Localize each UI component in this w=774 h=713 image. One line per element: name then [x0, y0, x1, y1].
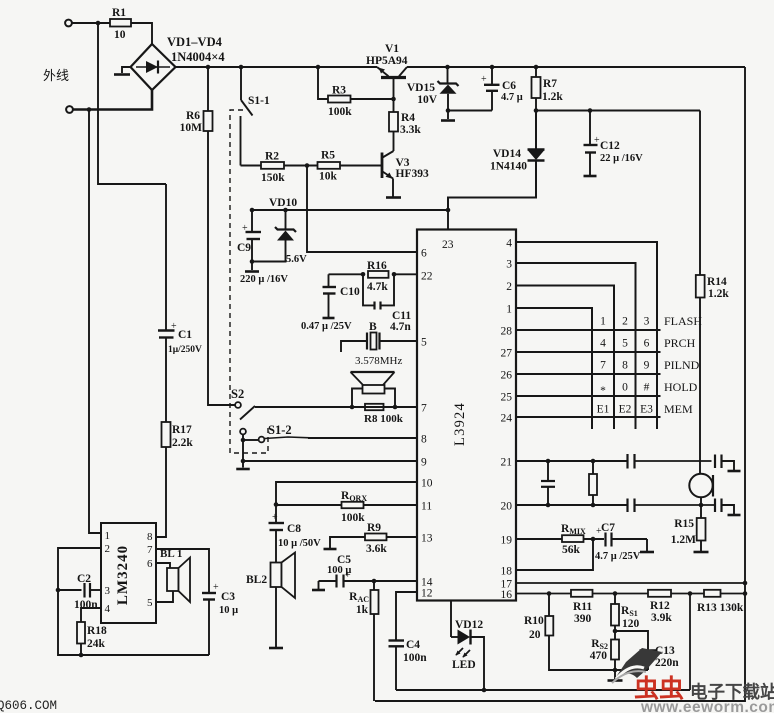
svg-text:10 μ: 10 μ: [219, 605, 238, 616]
svg-text:0.47 μ /25V: 0.47 μ /25V: [301, 321, 352, 332]
svg-text:BL2: BL2: [246, 574, 267, 586]
wire S1-2 node down to pin9: [242, 440, 244, 461]
capacitor C12 22u/16V: [589, 111, 591, 145]
node pin17 right: [743, 581, 748, 586]
LED VD12: [450, 601, 452, 638]
svg-text:10M: 10M: [180, 122, 203, 134]
ground below BL2: [275, 587, 277, 647]
svg-text:100n: 100n: [74, 599, 98, 611]
ground below C9: [251, 262, 253, 271]
svg-text:R13 130k: R13 130k: [697, 602, 744, 614]
svg-text:8: 8: [421, 434, 427, 446]
svg-text:2: 2: [506, 281, 512, 293]
svg-text:LED: LED: [452, 659, 476, 671]
svg-text:5: 5: [622, 338, 628, 350]
wire RAC bottom rail: [373, 614, 375, 701]
svg-text:R16: R16: [367, 260, 387, 272]
watermark swoosh logo: [612, 648, 662, 683]
svg-text:4: 4: [506, 238, 512, 250]
resistor R14 1.2k: [699, 111, 701, 276]
svg-text:4: 4: [600, 338, 606, 350]
resistor RAC 1k: [373, 581, 375, 590]
wire R2 to R5: [284, 165, 318, 167]
wire pin16 col to C4 rail: [689, 594, 691, 691]
node pin20 b: [591, 503, 596, 508]
svg-text:C2: C2: [77, 573, 91, 585]
svg-text:19: 19: [501, 535, 513, 547]
wire pin16: [516, 593, 571, 595]
svg-text:C10: C10: [340, 286, 360, 298]
svg-text:+: +: [596, 526, 602, 537]
svg-text:22: 22: [421, 271, 433, 283]
keypad column wire pin2: [516, 286, 614, 430]
svg-text:5: 5: [147, 597, 153, 609]
svg-text:6: 6: [147, 558, 153, 570]
svg-text:C9: C9: [237, 242, 251, 254]
svg-text:28: 28: [501, 326, 513, 338]
svg-text:470: 470: [590, 650, 608, 662]
ground below R15: [700, 541, 702, 552]
svg-text:1.2M: 1.2M: [671, 534, 696, 546]
capacitor C4 100n: [389, 639, 405, 641]
op-amp U2 LM3240 ringer IC: [101, 523, 156, 623]
capacitor C8 10u/50V: [275, 505, 277, 523]
svg-text:1.2k: 1.2k: [542, 91, 563, 103]
op-amp U1 L3924 dialer IC: [417, 230, 516, 601]
microphone BM: [689, 474, 712, 497]
node RS1 top: [613, 591, 618, 596]
wire R5 to V3 base: [340, 165, 382, 167]
svg-text:VD1–VD4: VD1–VD4: [167, 35, 223, 49]
svg-text:5: 5: [421, 337, 427, 349]
svg-text:L3924: L3924: [452, 402, 468, 446]
svg-text:C12: C12: [600, 140, 620, 152]
transistor V1 HP5A94: [381, 76, 406, 79]
terminal: phone line tip: [65, 20, 72, 27]
svg-text:22 μ /16V: 22 μ /16V: [600, 153, 643, 164]
svg-text:7: 7: [147, 544, 153, 556]
svg-text:R3: R3: [332, 85, 346, 97]
svg-text:4.7 μ /25V: 4.7 μ /25V: [595, 551, 641, 562]
capacitor on pin21 line: [626, 454, 628, 469]
svg-text:6: 6: [421, 248, 427, 260]
svg-text:R8 100k: R8 100k: [364, 413, 404, 425]
svg-text:VD15: VD15: [407, 82, 435, 94]
svg-text:E3: E3: [640, 404, 653, 416]
svg-text:100k: 100k: [341, 512, 365, 524]
capacitor to earpiece (pin21 right): [714, 455, 716, 469]
wire terminal1 to R1: [72, 22, 110, 24]
svg-text:PILND: PILND: [664, 358, 700, 372]
keypad column wire pin3: [516, 263, 636, 429]
ground at bridge left corner: [122, 67, 131, 73]
wire pin10: [276, 482, 417, 505]
node C8 top: [274, 502, 279, 507]
svg-text:VD12: VD12: [455, 619, 483, 631]
svg-text:6: 6: [644, 338, 650, 350]
wire pin2 loop: [58, 548, 209, 655]
node VD10: [283, 208, 288, 213]
wire pin11: [276, 504, 342, 506]
node V1 base / R4: [391, 97, 396, 102]
svg-text:R15: R15: [674, 518, 694, 530]
node mic bottom: [699, 503, 704, 508]
capacitor right of mic (pin20): [714, 499, 716, 513]
resistor R13 130k: [704, 590, 721, 597]
svg-text:3: 3: [506, 259, 512, 271]
ground below RS2 node: [614, 670, 616, 679]
resistor R2 150k: [241, 165, 262, 167]
buzzer BL (receiver): [351, 371, 395, 373]
wire from R1 node down to C1 branch: [98, 23, 166, 184]
wire right edge rail down: [375, 67, 745, 701]
wire pin21: [516, 460, 628, 462]
svg-text:3.6k: 3.6k: [366, 543, 387, 555]
svg-text:C3: C3: [221, 591, 235, 603]
svg-text:9: 9: [421, 457, 427, 469]
svg-text:Q606.COM: Q606.COM: [0, 699, 57, 713]
svg-text:21: 21: [501, 457, 513, 469]
ground at R9 left: [330, 537, 365, 548]
capacitor on pin20 line: [626, 499, 628, 513]
node pin21 b: [591, 459, 596, 464]
wire pin19: [584, 538, 605, 540]
resistor RS1 120: [614, 594, 616, 605]
capacitor C13 220n: [615, 631, 648, 650]
capacitor C9 220u/16V: [251, 210, 253, 232]
capacitor C1 1u/250V: [165, 184, 167, 330]
wire pin7: [255, 406, 417, 408]
node C9 bottom: [250, 259, 255, 264]
switch S2: [235, 402, 241, 408]
svg-text:S1-2: S1-2: [268, 423, 292, 437]
svg-text:R1: R1: [112, 7, 126, 19]
node R13 right: [743, 591, 748, 596]
resistor R18 24k: [81, 608, 101, 622]
resistor R9 3.6k: [387, 536, 417, 538]
svg-text:5.6V: 5.6V: [286, 254, 307, 265]
svg-text:2: 2: [622, 316, 628, 328]
svg-text:HP5A94: HP5A94: [366, 55, 408, 67]
svg-text:1.2k: 1.2k: [708, 288, 729, 300]
svg-text:www.eeworm.com: www.eeworm.com: [640, 699, 774, 713]
keypad row wire pin24: [516, 416, 661, 418]
node R16 right: [392, 272, 397, 277]
svg-text:+: +: [345, 570, 351, 581]
node between R2 R5: [305, 163, 310, 168]
svg-text:20: 20: [529, 629, 541, 641]
svg-text:R18: R18: [87, 625, 107, 637]
svg-text:13: 13: [421, 533, 433, 545]
wire node to IC pin 23: [447, 210, 449, 230]
terminal: phone line ring: [66, 106, 73, 113]
bridge rectifier VD1-VD4 1N4004x4: [131, 44, 176, 90]
wire VD14 to pin23 node: [448, 161, 536, 211]
resistor R10 20: [548, 594, 550, 617]
node S1-2: [241, 438, 246, 443]
wire R17 to pin8: [156, 447, 166, 537]
keypad row wire pin25: [516, 395, 661, 397]
svg-text:1: 1: [506, 304, 512, 316]
resistor R3 100k: [318, 67, 328, 99]
capacitor C11 4.7n parallel loop: [363, 274, 374, 305]
node C12 tap: [588, 108, 593, 113]
resistor R6 10M: [207, 67, 209, 111]
svg-text:+: +: [481, 74, 487, 85]
svg-text:8: 8: [147, 531, 153, 543]
svg-text:R10: R10: [524, 615, 544, 627]
mechanical link dashed S1-1 to S1-2: [230, 110, 268, 453]
wire pin12 to C4: [396, 592, 417, 640]
svg-text:1: 1: [600, 316, 606, 328]
svg-text:R17: R17: [172, 424, 192, 436]
ground at C5 left: [318, 581, 320, 589]
svg-text:120: 120: [622, 618, 640, 630]
wire R14 to microphone: [699, 298, 701, 474]
svg-text:+: +: [213, 582, 219, 593]
resistor R7 1.2k: [535, 67, 537, 77]
svg-text:C6: C6: [502, 80, 516, 92]
node C9: [250, 208, 255, 213]
svg-text:E1: E1: [597, 404, 610, 416]
wire pin14: [374, 580, 417, 582]
svg-text:VD10: VD10: [269, 197, 297, 209]
svg-text:R12: R12: [650, 600, 670, 612]
svg-text:150k: 150k: [261, 172, 285, 184]
wire bridge output rail (top): [176, 66, 378, 68]
node: R1 left junction: [96, 21, 101, 26]
svg-text:26: 26: [501, 370, 513, 382]
svg-text:R5: R5: [321, 150, 335, 162]
resistor RMIX 56k: [516, 538, 562, 540]
svg-text:B: B: [369, 321, 377, 333]
node C6 tap: [490, 65, 495, 70]
svg-text:C1: C1: [178, 329, 192, 341]
node R13 left: [688, 591, 693, 596]
resistor R16 4.7k: [368, 271, 389, 278]
svg-text:7: 7: [421, 403, 427, 415]
node R8 left: [350, 405, 355, 410]
svg-text:3: 3: [644, 316, 650, 328]
svg-text:1k: 1k: [356, 604, 369, 616]
svg-text:9: 9: [644, 360, 650, 372]
keypad row wire pin28: [516, 329, 661, 331]
wire VD10 node row: [252, 209, 448, 211]
svg-text:4.7 μ: 4.7 μ: [501, 92, 523, 103]
svg-text:1N4140: 1N4140: [490, 161, 527, 173]
svg-text:3.9k: 3.9k: [651, 612, 672, 624]
svg-text:10k: 10k: [319, 171, 338, 183]
svg-text:R6: R6: [186, 110, 200, 122]
wire pin22 left: [329, 273, 364, 275]
wire V1 collector rail to right edge: [407, 66, 745, 68]
node R6 tap: [206, 65, 211, 70]
node pin18/C7: [591, 537, 596, 542]
svg-text:E2: E2: [619, 404, 632, 416]
node ground RS2: [613, 668, 618, 673]
svg-text:外线: 外线: [43, 68, 69, 83]
svg-text:MEM: MEM: [664, 402, 693, 416]
resistor R15 1.2M: [700, 505, 702, 518]
svg-text:3.578MHz: 3.578MHz: [355, 355, 402, 367]
svg-text:0: 0: [622, 382, 628, 394]
keypad column wire pin4: [516, 242, 657, 429]
node pin9: [241, 459, 246, 464]
resistor R5 10k: [318, 162, 341, 169]
wire pin17: [516, 582, 745, 584]
svg-text:10 μ /50V: 10 μ /50V: [278, 538, 321, 549]
switch S1-2: [240, 429, 246, 435]
node pin20 a: [546, 503, 551, 508]
node R7 tap: [534, 65, 539, 70]
svg-text:18: 18: [501, 566, 513, 578]
svg-text:20: 20: [501, 501, 513, 513]
keypad column wire pin1: [516, 308, 592, 429]
svg-text:1N4004×4: 1N4004×4: [171, 50, 225, 64]
svg-text:4.7n: 4.7n: [390, 321, 411, 333]
node VD15/C6 bottom: [446, 108, 451, 113]
svg-text:56k: 56k: [562, 544, 581, 556]
svg-text:23: 23: [442, 239, 454, 251]
wire node to IC pin6: [307, 166, 417, 253]
svg-text:25: 25: [501, 392, 513, 404]
node S1-1 tap: [239, 65, 244, 70]
svg-text:12: 12: [421, 588, 433, 600]
svg-text:HF393: HF393: [396, 168, 429, 180]
svg-text:390: 390: [574, 613, 592, 625]
svg-text:R4: R4: [401, 112, 415, 124]
zener VD15 10V: [447, 67, 449, 83]
svg-text:R2: R2: [265, 151, 279, 163]
wire C4 to LED node: [396, 689, 690, 691]
crystal B 3.578MHz: [341, 341, 367, 352]
wire pin8: [308, 437, 417, 439]
speaker BL2: [271, 563, 282, 588]
node: left rail tap: [87, 107, 92, 112]
capacitor C6 4.7u: [491, 67, 493, 84]
svg-text:S1-1: S1-1: [248, 95, 270, 107]
transistor V3 HF393: [393, 132, 395, 152]
resistor R11 390: [571, 590, 593, 597]
ground below VD15: [447, 111, 449, 120]
resistor RS2 470: [614, 631, 616, 640]
node R18 bottom: [79, 653, 84, 658]
svg-text:4: 4: [105, 603, 111, 615]
keypad row wire pin26: [516, 373, 661, 375]
resistor R12 3.9k: [648, 590, 671, 597]
wire R10 bottom: [549, 636, 648, 671]
resistor R17 2.2k: [162, 422, 171, 447]
wire pin9: [243, 460, 417, 462]
resistor between pin21 and pin20: [592, 461, 594, 474]
svg-text:3.3k: 3.3k: [400, 124, 421, 136]
svg-text:100n: 100n: [403, 652, 427, 664]
node RS1/RS2: [613, 629, 618, 634]
resistor R1: [110, 19, 131, 27]
resistor R8 100k: [365, 404, 384, 410]
svg-text:#: #: [644, 382, 650, 394]
keypad row wire pin27: [516, 351, 661, 353]
ground below pin9 node: [242, 461, 244, 468]
svg-text:C8: C8: [287, 523, 301, 535]
node R7 bottom: [534, 108, 539, 113]
resistor R4 3.3k: [393, 99, 395, 112]
ground at V3 emitter: [392, 179, 394, 197]
svg-text:R9: R9: [367, 522, 381, 534]
capacitor C2 100n: [58, 589, 82, 591]
svg-text:2: 2: [105, 543, 111, 555]
node C2: [56, 588, 61, 593]
node VD15 tap: [445, 65, 450, 70]
switch S1-1: [240, 67, 242, 100]
svg-text:8: 8: [622, 360, 628, 372]
svg-text:LM3240: LM3240: [115, 545, 131, 605]
node R3 tap: [316, 65, 321, 70]
svg-text:R11: R11: [573, 601, 592, 613]
svg-text:10V: 10V: [417, 94, 438, 106]
wire pin20: [516, 504, 628, 506]
svg-text:10: 10: [421, 478, 433, 490]
resistor RQRX 100k: [342, 502, 364, 508]
svg-text:24k: 24k: [87, 638, 106, 650]
svg-text:VD14: VD14: [493, 148, 521, 160]
node pin23: [446, 208, 451, 213]
node R8 right: [393, 405, 398, 410]
svg-text:HOLD: HOLD: [664, 380, 698, 394]
wire R7 node to C12/R14: [536, 110, 700, 112]
svg-text:1μ/250V: 1μ/250V: [168, 345, 202, 355]
svg-text:BL 1: BL 1: [160, 548, 182, 560]
ground at C7 right: [646, 539, 648, 551]
svg-text:24: 24: [501, 413, 513, 425]
svg-text:4.7k: 4.7k: [367, 281, 388, 293]
svg-text:100k: 100k: [328, 106, 352, 118]
svg-text:220 μ /16V: 220 μ /16V: [240, 274, 288, 285]
wire R3 to V1 base node: [351, 98, 394, 100]
node pin21 a: [546, 459, 551, 464]
svg-text:3: 3: [105, 585, 111, 597]
svg-text:R7: R7: [543, 78, 557, 90]
svg-text:11: 11: [421, 501, 432, 513]
node R10 top: [547, 591, 552, 596]
svg-text:+: +: [272, 512, 278, 523]
svg-text:7: 7: [600, 360, 606, 372]
svg-text:V1: V1: [385, 43, 399, 55]
svg-text:FLASH: FLASH: [664, 314, 702, 328]
svg-text:27: 27: [501, 348, 513, 360]
capacitor C3 10u: [156, 549, 209, 593]
svg-text:C4: C4: [406, 639, 420, 651]
svg-text:1: 1: [105, 530, 111, 542]
capacitor C10 0.47u/25V: [328, 274, 330, 286]
wire terminal2 to bridge bottom: [73, 89, 152, 110]
svg-text:C7: C7: [601, 522, 615, 534]
wire left rail down to LM3240 pin1: [89, 110, 101, 534]
svg-text:R14: R14: [707, 276, 727, 288]
node RAC: [372, 579, 377, 584]
wire pin18: [516, 539, 593, 570]
node R16 left: [361, 272, 366, 277]
wire R1 to bridge top: [131, 23, 152, 45]
svg-text:S2: S2: [231, 387, 244, 401]
wire R6 down to S2: [208, 131, 235, 405]
diode VD14 1N4140: [535, 111, 537, 150]
node LED bottom: [482, 688, 487, 693]
svg-text:10: 10: [114, 29, 126, 41]
svg-text:16: 16: [501, 589, 513, 601]
svg-text:2.2k: 2.2k: [172, 437, 193, 449]
capacitor between pin21 and pin20: [547, 461, 549, 481]
